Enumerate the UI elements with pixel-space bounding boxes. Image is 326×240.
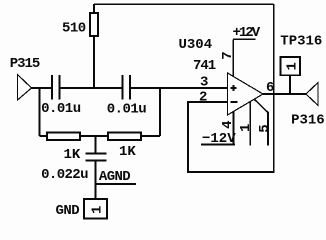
svg-text:AGND: AGND xyxy=(99,169,130,185)
svg-text:0.022u: 0.022u xyxy=(41,167,88,183)
svg-text:GND: GND xyxy=(56,203,80,219)
svg-text:1: 1 xyxy=(238,124,254,132)
svg-text:510: 510 xyxy=(62,21,86,37)
svg-text:1: 1 xyxy=(90,206,106,214)
svg-text:U304: U304 xyxy=(179,37,213,53)
svg-text:1: 1 xyxy=(284,62,300,70)
svg-text:1K: 1K xyxy=(64,147,81,163)
svg-text:P315: P315 xyxy=(10,56,40,72)
svg-text:1K: 1K xyxy=(119,144,136,160)
svg-text:5: 5 xyxy=(257,124,273,132)
svg-text:TP316: TP316 xyxy=(280,34,322,50)
svg-text:6: 6 xyxy=(266,80,274,96)
svg-text:3: 3 xyxy=(200,75,208,91)
svg-text:0.01u: 0.01u xyxy=(107,102,147,118)
svg-text:741: 741 xyxy=(193,58,216,74)
svg-text:4: 4 xyxy=(220,120,236,128)
svg-text:+12V: +12V xyxy=(233,25,261,41)
svg-text:7: 7 xyxy=(220,51,236,59)
svg-text:2: 2 xyxy=(199,90,207,106)
svg-text:−12V: −12V xyxy=(202,131,236,147)
svg-text:P316: P316 xyxy=(291,113,325,129)
svg-text:0.01u: 0.01u xyxy=(41,101,81,117)
